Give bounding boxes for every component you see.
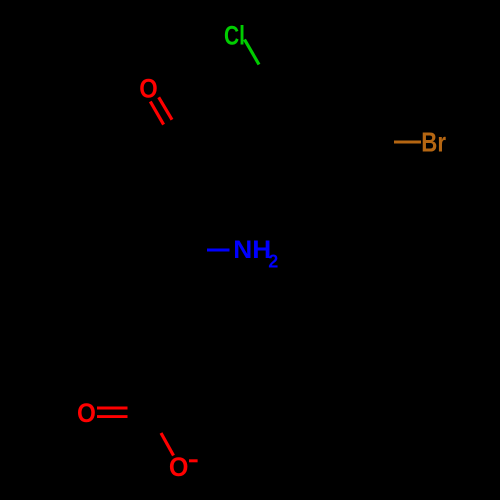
svg-text:NH: NH	[233, 236, 271, 264]
svg-text:Cl: Cl	[224, 21, 245, 51]
svg-text:2: 2	[268, 252, 278, 272]
svg-text:Br: Br	[421, 127, 446, 158]
svg-text:O: O	[169, 452, 189, 482]
svg-text:O: O	[77, 398, 96, 428]
svg-text:O: O	[139, 73, 158, 103]
